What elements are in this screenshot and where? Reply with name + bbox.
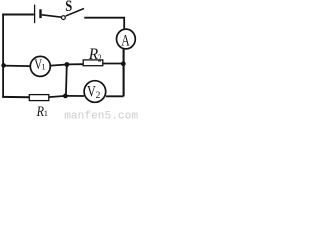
node Y': junction bottom: [63, 94, 68, 99]
resistor R1 box: [29, 95, 49, 101]
wire: node Y to V1: [50, 65, 67, 66]
ammeter A circle: [117, 29, 136, 49]
node: left edge junction: [1, 63, 6, 68]
wire: V2 right to bottom-right corner: [106, 95, 124, 97]
wire: bottom-left to R1: [2, 96, 29, 98]
svg-text:2: 2: [96, 91, 101, 101]
wire: left vertical edge: [2, 14, 4, 98]
switch S: pivot circle: [62, 16, 66, 20]
node X: junction right of R2: [121, 61, 126, 66]
wire: vertical Y to Y': [65, 65, 68, 97]
wire: battery to switch: [42, 15, 62, 17]
resistor R2 box: [83, 60, 103, 66]
svg-text:S: S: [65, 0, 72, 15]
svg-text:2: 2: [98, 53, 102, 64]
wire: top-left horizontal to battery: [2, 14, 34, 16]
voltmeter V1 circle: [30, 56, 50, 76]
svg-text:A: A: [121, 32, 130, 49]
battery: short plate (negative): [39, 9, 41, 18]
svg-text:1: 1: [44, 108, 48, 118]
wire: right vertical (ammeter down to bottom corner): [123, 49, 125, 96]
wire: V1 to left edge: [3, 65, 30, 68]
svg-text:1: 1: [41, 62, 45, 72]
wire: junction X to R2: [103, 63, 124, 65]
voltmeter V2 circle: [84, 81, 106, 103]
wire: switch to top-right corner and down: [84, 18, 124, 30]
svg-text:manfen5.com: manfen5.com: [64, 110, 138, 121]
wire: R2 to node Y: [67, 63, 83, 65]
wire: R1 to node Y': [49, 96, 66, 97]
node Y: junction left of R2: [65, 62, 70, 67]
battery: long plate (positive): [34, 5, 36, 24]
wire: node Y' to V2: [65, 95, 84, 97]
switch S: arm: [66, 9, 85, 17]
svg-text:R: R: [36, 104, 44, 120]
